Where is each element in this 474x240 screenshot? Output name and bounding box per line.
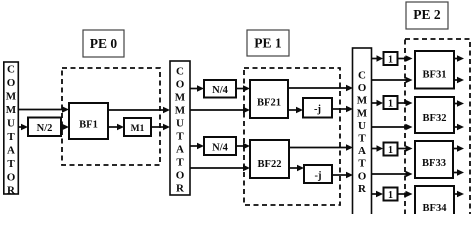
svg-text:T: T (7, 158, 15, 170)
svg-text:O: O (358, 170, 367, 182)
butterfly BF22 (250, 140, 289, 178)
svg-text:T: T (358, 158, 366, 170)
wire BF34 output 1 (454, 191, 464, 198)
svg-text:C: C (7, 64, 15, 76)
svg-text:M: M (6, 104, 17, 116)
wire commutator2 to N/4 upper (190, 85, 204, 92)
delay box N/2 (28, 118, 61, 137)
svg-text:BF22: BF22 (258, 159, 282, 170)
svg-text:T: T (176, 131, 184, 143)
commutator U3 (353, 48, 372, 218)
svg-text:C: C (176, 66, 184, 78)
butterfly BF33 (415, 141, 453, 178)
butterfly BF32 (415, 97, 454, 133)
svg-text:N/4: N/4 (212, 85, 229, 96)
wire commutator2 to N/4 lower (190, 143, 204, 150)
multiplier -j lower (304, 165, 332, 183)
wire commutator2 to BF22 lower input (190, 165, 250, 172)
svg-text:PE 2: PE 2 (413, 7, 441, 22)
PE0 dashed boundary (62, 68, 160, 165)
svg-text:PE 1: PE 1 (254, 36, 282, 51)
twiddle box 1a (384, 52, 398, 66)
PE 0 label box (83, 30, 124, 57)
svg-text:O: O (176, 79, 185, 91)
wire BF33 output 1 (453, 145, 464, 151)
svg-text:N/2: N/2 (37, 123, 53, 134)
wire commutator1 to N/2 (18, 124, 28, 131)
wire BF33 output 2 (453, 169, 464, 175)
wire commutator3 to twiddle box 1d (372, 191, 384, 198)
multiplier -j upper (303, 98, 332, 118)
wire BF31 output 2 (454, 77, 464, 84)
wire commutator1 to BF1 upper input (18, 106, 69, 113)
wire commutator2 to BF21 lower input (190, 107, 250, 114)
PE 2 label box (406, 2, 448, 29)
PE1 dashed boundary (244, 68, 340, 205)
svg-text:R: R (176, 183, 185, 195)
svg-text:1: 1 (388, 55, 393, 66)
butterfly BF21 (250, 80, 288, 118)
svg-text:M1: M1 (131, 124, 145, 134)
wire twiddle 1d to BF34 upper input (398, 191, 413, 198)
wire BF21 to -j upper (288, 107, 303, 114)
multiplier M1 (124, 118, 151, 136)
wire N/4 lower to BF22 upper input (236, 143, 250, 150)
svg-text:M: M (6, 91, 17, 103)
svg-text:R: R (358, 183, 367, 195)
svg-text:A: A (7, 145, 15, 157)
wire commutator3 to twiddle box 1b (372, 100, 384, 106)
twiddle box 1d (384, 188, 398, 202)
svg-text:T: T (176, 157, 184, 169)
commutator U1 (4, 62, 18, 197)
wire BF31 output 1 (454, 55, 464, 61)
wire commutator3 to twiddle box 1c (372, 145, 384, 151)
svg-text:1: 1 (388, 145, 393, 156)
butterfly BF1 (69, 103, 108, 139)
wire BF21 to commutator3 input 1 (288, 85, 353, 92)
twiddle box 1b (384, 96, 398, 110)
svg-text:BF1: BF1 (79, 120, 98, 131)
wire N/2 to BF1 lower input (61, 124, 69, 131)
wire commutator3 to BF32 lower input (372, 124, 413, 131)
wire commutator3 to twiddle box 1a (372, 55, 384, 61)
twiddle box 1c (384, 143, 398, 157)
svg-text:PE 0: PE 0 (90, 36, 118, 51)
svg-text:C: C (358, 70, 366, 82)
svg-text:BF31: BF31 (423, 70, 447, 81)
wire M1 to commutator2 lower input (151, 124, 170, 131)
svg-text:M: M (357, 95, 368, 107)
wire twiddle 1a to BF31 upper input (398, 55, 413, 61)
wire commutator3 to BF31 lower input (372, 77, 413, 84)
wire commutator3 to BF33 lower input (372, 171, 413, 177)
PE 1 label box (247, 30, 289, 56)
wire BF32 output 1 (454, 100, 464, 106)
commutator U2 (170, 61, 190, 195)
butterfly BF34 (415, 186, 454, 220)
svg-text:-j: -j (315, 171, 322, 182)
svg-text:BF33: BF33 (422, 158, 446, 169)
svg-text:O: O (176, 170, 185, 182)
wire twiddle 1c to BF33 upper input (398, 145, 413, 151)
svg-text:BF32: BF32 (423, 113, 447, 124)
svg-text:M: M (175, 105, 186, 117)
wire BF1 to M1 (108, 124, 124, 131)
wire N/4 upper to BF21 upper input (236, 85, 250, 92)
svg-text:O: O (358, 82, 367, 94)
svg-text:1: 1 (388, 99, 393, 110)
wire -j lower to commutator3 input 4 (332, 172, 353, 179)
wire twiddle 1b to BF32 upper input (398, 100, 413, 106)
PE2 dashed boundary (405, 39, 470, 219)
svg-text:U: U (7, 118, 15, 130)
svg-text:M: M (357, 107, 368, 119)
wire BF1 to commutator2 upper input (108, 107, 170, 114)
butterfly BF31 (415, 51, 454, 89)
svg-text:R: R (7, 185, 16, 197)
delay box N/4 lower (204, 137, 236, 155)
svg-text:1: 1 (388, 190, 393, 201)
delay box N/4 upper (204, 80, 236, 98)
svg-text:A: A (176, 144, 184, 156)
svg-text:U: U (358, 120, 366, 132)
svg-text:M: M (175, 92, 186, 104)
wire BF22 to commutator3 input 3 (289, 144, 353, 151)
wire BF22 to -j lower (289, 165, 304, 172)
svg-text:T: T (7, 131, 15, 143)
svg-text:T: T (358, 133, 366, 145)
svg-text:A: A (358, 145, 366, 157)
svg-text:-j: -j (314, 104, 321, 115)
svg-text:BF21: BF21 (257, 98, 281, 109)
svg-text:U: U (176, 118, 184, 130)
svg-text:N/4: N/4 (212, 143, 229, 154)
svg-text:O: O (7, 77, 16, 89)
wire BF32 output 2 (454, 124, 464, 131)
wire -j upper to commutator3 input 2 (332, 106, 353, 113)
svg-text:O: O (7, 172, 16, 184)
svg-text:BF34: BF34 (423, 203, 448, 214)
